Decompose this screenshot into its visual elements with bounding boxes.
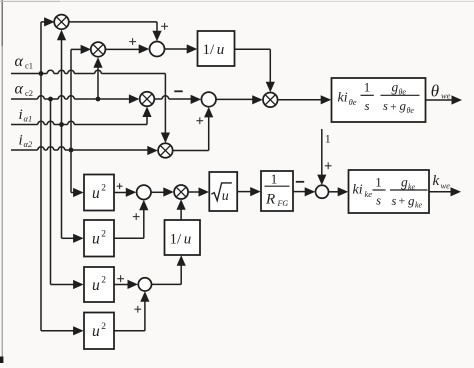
svg-text:1/: 1/ — [203, 42, 216, 58]
svg-text:u: u — [222, 189, 229, 204]
svg-text:u: u — [217, 42, 225, 58]
svg-text:+: + — [390, 99, 397, 113]
svg-text:α: α — [15, 53, 24, 70]
svg-text:ke: ke — [415, 201, 423, 210]
svg-text:s: s — [392, 194, 397, 208]
svg-text:c2: c2 — [25, 88, 33, 98]
svg-text:u: u — [92, 323, 100, 340]
svg-text:α1: α1 — [24, 114, 33, 124]
svg-text:α2: α2 — [24, 139, 33, 149]
svg-text:c1: c1 — [25, 61, 33, 71]
svg-text:1: 1 — [375, 174, 382, 189]
svg-text:+: + — [399, 193, 406, 207]
svg-text:we: we — [441, 91, 451, 101]
svg-text:i: i — [19, 107, 23, 123]
svg-text:u: u — [92, 231, 100, 248]
svg-text:s: s — [364, 98, 369, 113]
svg-text:g: g — [392, 80, 399, 95]
svg-text:θe: θe — [349, 97, 357, 107]
svg-text:1: 1 — [364, 80, 371, 95]
svg-text:R: R — [265, 192, 275, 208]
svg-text:1/: 1/ — [170, 232, 183, 248]
svg-text:FG: FG — [277, 199, 289, 208]
svg-text:i: i — [19, 133, 23, 149]
svg-text:ki: ki — [338, 91, 348, 106]
svg-text:θe: θe — [407, 106, 415, 115]
svg-text:u: u — [92, 277, 100, 294]
svg-text:θ: θ — [431, 81, 439, 100]
svg-text:we: we — [441, 180, 451, 190]
svg-text:ke: ke — [365, 189, 373, 199]
svg-text:s: s — [383, 99, 388, 113]
svg-text:g: g — [401, 174, 408, 189]
svg-text:g: g — [400, 98, 407, 113]
svg-text:k: k — [433, 173, 440, 189]
svg-text:ki: ki — [353, 183, 363, 198]
svg-text:g: g — [408, 193, 415, 208]
svg-text:2: 2 — [101, 276, 106, 286]
svg-text:1: 1 — [271, 171, 278, 186]
svg-text:u: u — [92, 185, 100, 202]
svg-text:1: 1 — [325, 132, 331, 146]
svg-text:u: u — [184, 232, 192, 248]
svg-text:s: s — [376, 193, 381, 208]
svg-text:α: α — [15, 81, 24, 98]
svg-text:2: 2 — [101, 184, 106, 194]
svg-text:2: 2 — [101, 230, 106, 240]
svg-text:2: 2 — [101, 322, 106, 332]
